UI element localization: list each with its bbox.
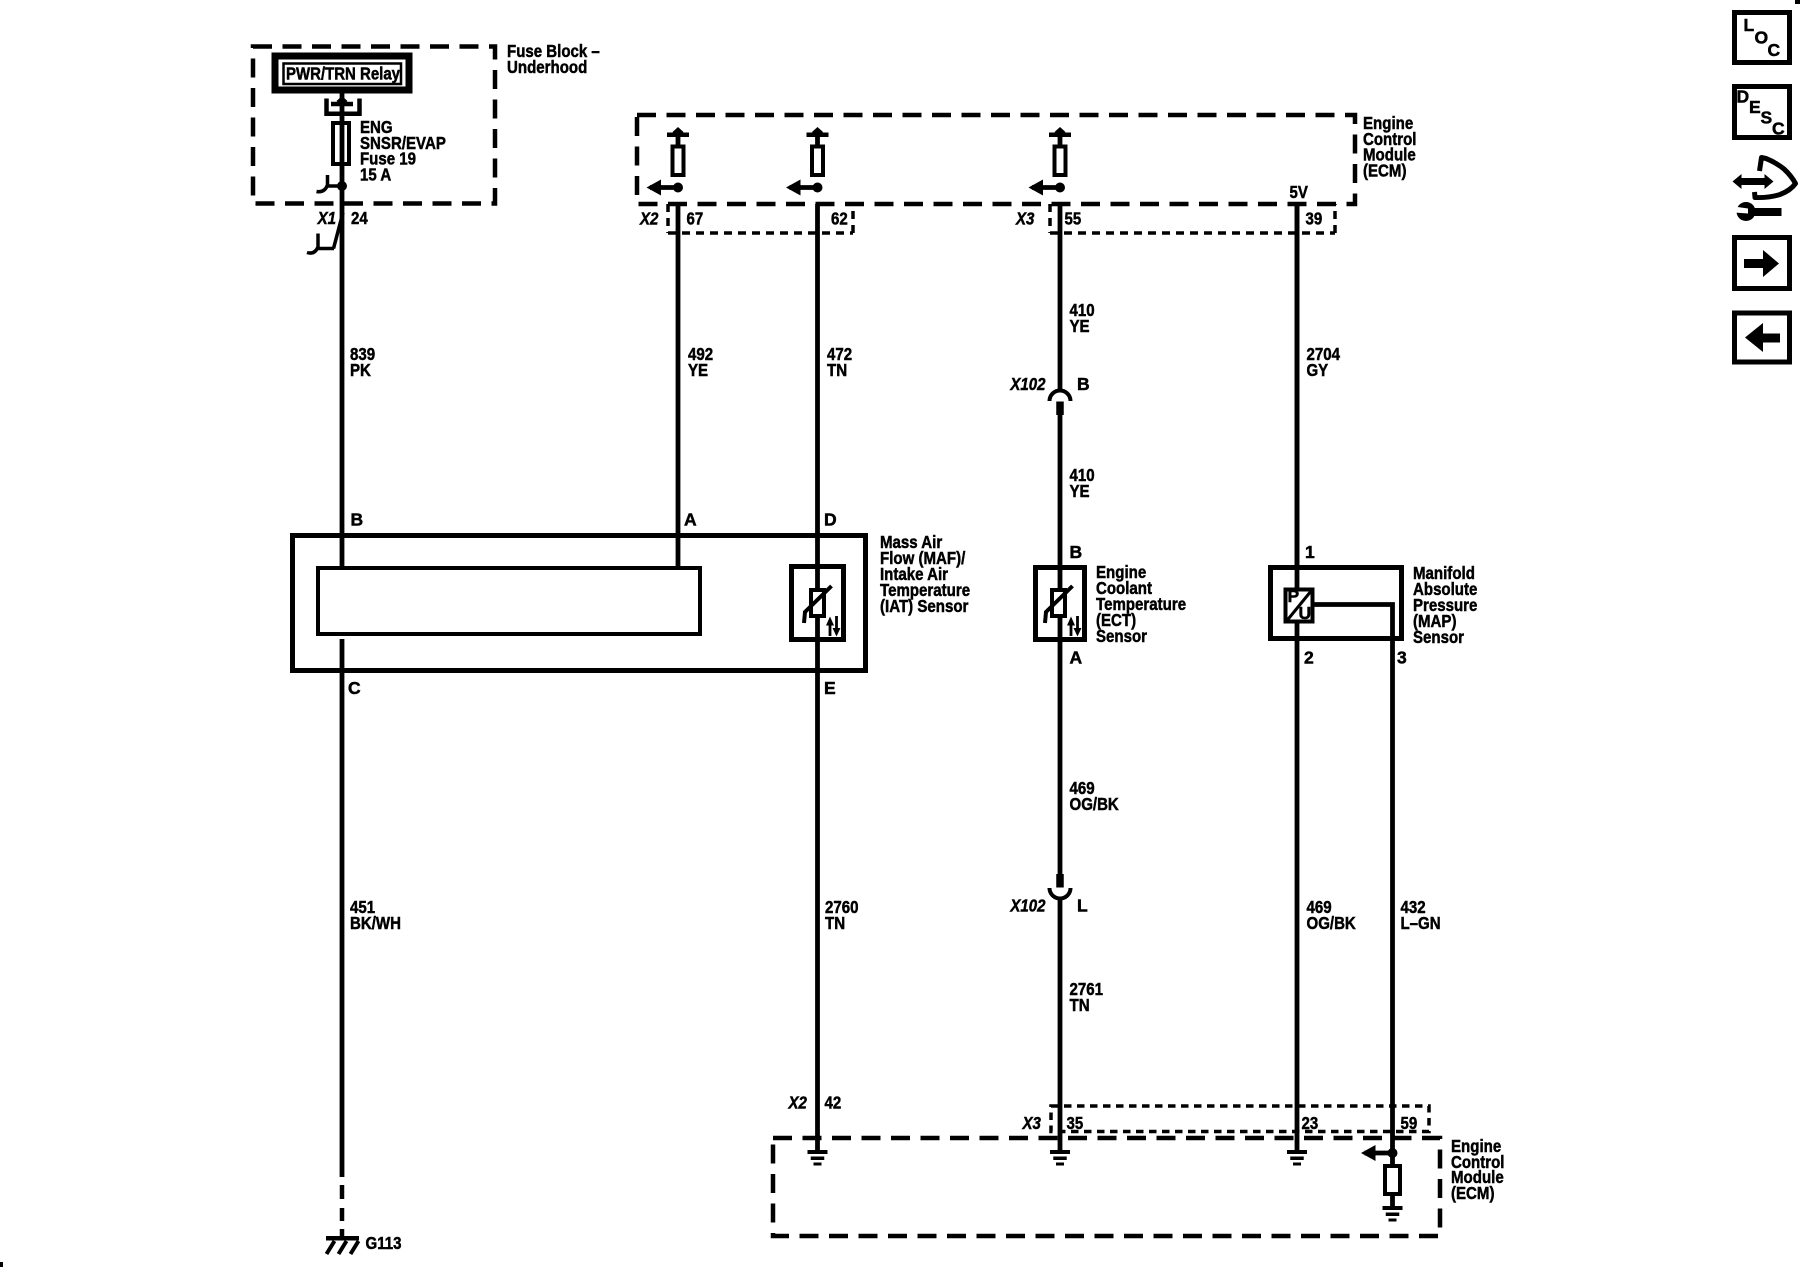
svg-text:(ECM): (ECM) <box>1451 1183 1495 1203</box>
svg-text:55: 55 <box>1065 209 1082 229</box>
svg-text:YE: YE <box>688 360 708 380</box>
svg-text:X3: X3 <box>1015 209 1034 229</box>
chassis ground G113 symbol <box>326 1236 359 1254</box>
svg-text:C: C <box>1768 40 1781 60</box>
junction dot at pin 59 <box>1388 1148 1398 1158</box>
wire MAP signal out (P/U to pin 3) <box>1314 605 1393 1165</box>
junction dot at pin 62 <box>813 183 823 193</box>
wire ECT pin B entry <box>1058 565 1063 590</box>
connector X1 upper hook <box>317 175 343 192</box>
junction dot at pin 55 <box>1055 183 1065 193</box>
svg-text:2: 2 <box>1304 648 1314 668</box>
svg-text:E: E <box>824 678 836 698</box>
wire ECT pin A exit <box>1058 616 1063 642</box>
svg-text:PK: PK <box>350 360 371 380</box>
svg-text:B: B <box>1070 542 1083 562</box>
svg-text:59: 59 <box>1401 1113 1418 1133</box>
fuse holder socket bracket <box>327 99 360 114</box>
wire 839 PK (fuse to MAF pin B) <box>340 186 345 567</box>
LOC nav button <box>1735 13 1790 63</box>
svg-text:YE: YE <box>1070 481 1090 501</box>
ECT thermistor resistor element <box>1052 590 1065 616</box>
svg-text:X2: X2 <box>639 209 658 229</box>
wire 469 OG/BK (ECT pin A to X102 L) <box>1058 642 1063 874</box>
MAF/IAT sensor outer box <box>293 536 866 671</box>
wire 472 TN (ECM 62 to IAT pin D) <box>815 204 820 564</box>
wire 2761 TN (X102 L to ECM 35) <box>1058 899 1063 1150</box>
svg-text:Sensor: Sensor <box>1413 627 1464 647</box>
svg-text:67: 67 <box>687 209 704 229</box>
svg-text:OG/BK: OG/BK <box>1307 913 1357 933</box>
ground symbol at ECM pin 59 resistor <box>1383 1206 1403 1222</box>
ECT temperature arrows <box>1067 616 1082 637</box>
svg-text:L–GN: L–GN <box>1401 913 1441 933</box>
svg-text:B: B <box>351 510 364 530</box>
ECM (top) dashed box <box>637 115 1355 204</box>
svg-text:X102: X102 <box>1010 896 1046 916</box>
ECT thermistor diagonal arrow <box>1045 586 1073 623</box>
svg-text:S: S <box>1761 108 1773 128</box>
svg-text:23: 23 <box>1302 1113 1319 1133</box>
ECM internal resistor at pin 62 - stub wire <box>815 136 820 147</box>
ECM internal resistor at pin 55 - top bar <box>1049 133 1071 138</box>
svg-text:L: L <box>1744 15 1755 35</box>
ECM internal resistor at pin 67 - stub wire <box>676 136 681 147</box>
svg-text:TN: TN <box>1070 995 1090 1015</box>
svg-text:3: 3 <box>1397 648 1407 668</box>
svg-text:OG/BK: OG/BK <box>1070 794 1120 814</box>
svg-text:62: 62 <box>831 209 848 229</box>
ground symbol at ECM pin 35 <box>1050 1150 1070 1166</box>
IAT thermistor box <box>792 567 844 640</box>
MAP transducer diagonal <box>1287 591 1312 621</box>
MAF sensor inner element box <box>318 568 700 634</box>
IAT temperature arrows <box>826 616 841 637</box>
svg-text:15 A: 15 A <box>360 165 392 185</box>
ECM internal resistor at pin 67 - terminal diamond <box>673 127 684 137</box>
ECM (bottom) dashed box <box>773 1138 1440 1236</box>
connector strip X2 (pins 67,62) dashed box <box>668 204 853 233</box>
MAP sensor box <box>1271 568 1402 639</box>
svg-text:1: 1 <box>1305 542 1315 562</box>
svg-text:BK/WH: BK/WH <box>350 913 401 933</box>
wire 2760 TN (IAT pin E to ECM 42) <box>815 564 820 1150</box>
ECM internal resistor at pin 55 - terminal diamond <box>1055 127 1066 137</box>
connector strip X3 (pins 35,23,59) dashed box (bottom) <box>1051 1106 1429 1132</box>
in-line connector X102 cavity B - female half <box>1050 391 1071 402</box>
svg-text:35: 35 <box>1067 1113 1084 1133</box>
svg-text:YE: YE <box>1070 316 1090 336</box>
relay K PWR/TRN box <box>275 56 409 90</box>
ECM internal resistor at pin 55 <box>1055 147 1066 176</box>
signal arrow at pin 67 <box>647 180 679 196</box>
svg-text:X3: X3 <box>1022 1113 1041 1133</box>
svg-text:X2: X2 <box>788 1093 807 1113</box>
svg-text:X102: X102 <box>1010 374 1046 394</box>
svg-text:(ECM): (ECM) <box>1363 161 1407 181</box>
fuse block - underhood dashed box <box>253 47 495 204</box>
in-line connector X102 cavity L - female half <box>1050 888 1071 899</box>
hotspot loop icon <box>1755 158 1796 198</box>
double arrow icon <box>1733 174 1774 189</box>
svg-text:TN: TN <box>827 360 847 380</box>
junction dot at fuse output <box>337 181 347 191</box>
svg-text:A: A <box>1070 648 1083 668</box>
wrench icon <box>1734 202 1782 221</box>
svg-text:D: D <box>824 510 837 530</box>
wire 410 YE (ECM 55 to X102 B) <box>1058 204 1063 390</box>
page corner mark (top right) <box>1795 0 1800 4</box>
svg-text:Sensor: Sensor <box>1096 626 1147 646</box>
wire 451 BK/WH (MAF pin C to G113) <box>340 639 345 1177</box>
in-line connector X102 cavity L - male terminal <box>1056 874 1064 888</box>
svg-text:G113: G113 <box>366 1233 402 1253</box>
wire dashed tail to G113 <box>340 1185 345 1237</box>
next page nav button <box>1735 238 1790 289</box>
svg-text:42: 42 <box>825 1093 842 1113</box>
wire 2704 GY (ECM 39 5V to MAP pin 1) <box>1295 204 1300 567</box>
signal arrow at pin 59 <box>1361 1145 1393 1161</box>
in-line connector X102 cavity B - male terminal <box>1056 402 1064 416</box>
svg-text:E: E <box>1749 97 1761 117</box>
svg-text:C: C <box>348 678 361 698</box>
connector X1 lower hook and slash <box>307 213 343 254</box>
svg-text:24: 24 <box>351 208 368 228</box>
wire resistor to ground (pin 59) <box>1390 1194 1395 1208</box>
svg-text:GY: GY <box>1307 360 1329 380</box>
signal arrow at pin 55 <box>1029 180 1061 196</box>
svg-text:5V: 5V <box>1290 182 1309 202</box>
svg-text:PWR/TRN Relay: PWR/TRN Relay <box>286 64 400 84</box>
svg-text:L: L <box>1077 896 1088 916</box>
ECM internal resistor at pin 62 - top bar <box>807 133 829 138</box>
svg-text:C: C <box>1772 119 1785 139</box>
svg-text:D: D <box>1737 87 1750 107</box>
wire MAP pin 2 through (5V rail continues) <box>1295 204 1300 1150</box>
svg-text:(IAT) Sensor: (IAT) Sensor <box>880 596 969 616</box>
ECM internal resistor at pin 62 <box>812 147 823 176</box>
svg-text:U: U <box>1299 603 1312 623</box>
svg-text:B: B <box>1077 374 1090 394</box>
svg-text:TN: TN <box>825 913 845 933</box>
previous page nav button <box>1735 313 1790 362</box>
MAP transducer P/U box <box>1286 590 1313 622</box>
fuse F19 ENG SNSR/EVAP 15A symbol <box>333 123 349 164</box>
ECM internal resistor at pin 59 <box>1385 1166 1400 1194</box>
svg-text:O: O <box>1755 28 1769 48</box>
DESC nav button <box>1735 87 1790 139</box>
connector strip X3 (pins 55,39) dashed box <box>1050 204 1335 233</box>
relay output terminal diamond <box>337 96 348 106</box>
wire relay through fuse to junction <box>340 93 345 186</box>
svg-text:Underhood: Underhood <box>507 57 587 77</box>
ECM internal resistor at pin 67 - top bar <box>667 133 689 138</box>
svg-text:A: A <box>684 510 697 530</box>
ECM internal resistor at pin 62 - terminal diamond <box>812 127 823 137</box>
svg-text:X1: X1 <box>317 208 336 228</box>
IAT thermistor diagonal arrow <box>804 586 832 623</box>
page corner mark (bottom left) <box>0 1262 3 1267</box>
signal arrow at pin 62 <box>786 180 818 196</box>
wire 410 YE (X102 B to ECT pin B) <box>1058 414 1063 567</box>
ECT sensor box <box>1036 568 1085 640</box>
svg-text:39: 39 <box>1306 209 1323 229</box>
IAT thermistor resistor element <box>811 590 824 616</box>
junction dot at pin 67 <box>673 183 683 193</box>
ECM internal resistor at pin 67 <box>673 147 684 176</box>
ground symbol at ECM pin 23 <box>1287 1150 1307 1166</box>
relay terminal blade bar <box>331 102 353 107</box>
ECM internal resistor at pin 55 - stub wire <box>1058 136 1063 147</box>
ground symbol at ECM pin 42 <box>808 1150 828 1166</box>
wire 492 YE (ECM 67 to MAF pin A) <box>676 204 681 567</box>
